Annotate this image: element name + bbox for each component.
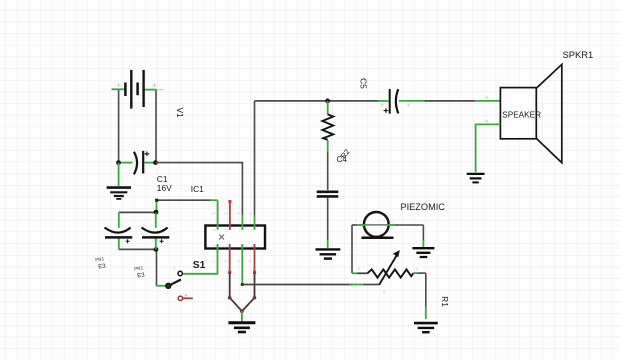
svg-text:3: 3 bbox=[240, 244, 242, 248]
wire pin2 red bottom bbox=[229, 244, 231, 272]
ground R1 bbox=[414, 323, 438, 332]
node junction C1 left bbox=[116, 160, 121, 165]
wire pin3 to wiper run bbox=[241, 283, 380, 286]
svg-text:14: 14 bbox=[211, 212, 215, 216]
wire pin4 diagonal to ground node bbox=[242, 296, 256, 311]
ground speaker bbox=[467, 174, 485, 183]
wire pin1 green drop bbox=[217, 200, 219, 230]
ground C4 bbox=[316, 249, 341, 258]
capacitor C3 bbox=[142, 212, 170, 249]
label C1 16V bbox=[157, 174, 172, 193]
wire piezo right bbox=[387, 225, 424, 247]
microphone PIEZOMIC bbox=[358, 212, 396, 238]
label SPKR1 bbox=[563, 49, 594, 60]
node red junction pin2 bbox=[228, 271, 231, 274]
svg-text:1: 1 bbox=[214, 244, 216, 248]
label C5 bbox=[358, 78, 368, 89]
battery V1 bbox=[112, 70, 164, 109]
wire top rail bbox=[255, 100, 379, 102]
label S1 bbox=[193, 260, 206, 271]
svg-text:2: 2 bbox=[391, 219, 393, 223]
wire C5 to speaker bbox=[425, 100, 476, 102]
wire pin4 green stub top bbox=[254, 215, 256, 230]
wire R2 to C4 bbox=[327, 153, 329, 191]
svg-text:14: 14 bbox=[212, 229, 216, 233]
node junction caps bottom bbox=[154, 247, 159, 252]
wire ground stub IC bbox=[241, 311, 243, 321]
node junction caps top bbox=[154, 210, 159, 215]
wire speaker top green bbox=[475, 100, 500, 102]
svg-text:V1: V1 bbox=[175, 107, 185, 118]
node V ground point bbox=[240, 309, 244, 313]
svg-text:R1: R1 bbox=[440, 296, 450, 307]
ground battery bbox=[107, 188, 131, 199]
resistor R2 drop bbox=[322, 101, 333, 153]
wire pin2 red top bbox=[228, 200, 231, 230]
wire top rail green into C5 bbox=[378, 100, 389, 102]
ground IC bbox=[228, 323, 255, 332]
wire jog to pin1 bbox=[155, 199, 217, 202]
capacitor C2 bbox=[105, 212, 133, 249]
wire C1 row to pin3 corner bbox=[156, 163, 243, 217]
svg-text:1: 1 bbox=[212, 259, 214, 263]
wire C5 right green bbox=[399, 100, 425, 102]
svg-text:C5: C5 bbox=[358, 78, 368, 89]
wire piezo left bbox=[352, 225, 365, 273]
node junction top rail bbox=[325, 99, 330, 104]
wire battery ground stub bbox=[118, 163, 120, 187]
capacitor C1 bbox=[120, 151, 154, 175]
wire battery right vertical bbox=[155, 90, 157, 163]
svg-text:2: 2 bbox=[225, 259, 227, 263]
wire battery left vertical bbox=[118, 89, 120, 162]
svg-text:16V: 16V bbox=[157, 183, 172, 193]
label R1 bbox=[440, 296, 450, 307]
potentiometer R1 bbox=[352, 250, 426, 295]
capacitor C4 bbox=[317, 192, 339, 197]
wire switch throw to pin1 bbox=[183, 273, 218, 275]
wire pin4 vertical from top rail bbox=[254, 101, 256, 217]
node junction C1 right bbox=[153, 160, 158, 165]
svg-text:1: 1 bbox=[355, 219, 357, 223]
label V1 bbox=[175, 107, 185, 118]
ground piezo bbox=[412, 248, 434, 257]
wire caps top rail bbox=[119, 211, 156, 213]
wire C4 to ground bbox=[327, 198, 329, 248]
svg-text:4: 4 bbox=[252, 244, 254, 248]
label PIEZOMIC bbox=[355, 202, 445, 223]
label IC1 bbox=[191, 184, 204, 194]
svg-text:13: 13 bbox=[224, 212, 228, 216]
svg-text:3: 3 bbox=[237, 259, 239, 263]
wire pin3 bottom green bbox=[241, 244, 243, 285]
wire caps bottom rail bbox=[119, 248, 156, 250]
svg-text:11: 11 bbox=[248, 212, 252, 216]
label C2 bbox=[95, 256, 107, 270]
node red junction pin4 bbox=[253, 271, 256, 274]
capacitor C5 bbox=[381, 89, 411, 114]
svg-text:12: 12 bbox=[236, 212, 240, 216]
speaker SPKR1 bbox=[485, 64, 562, 162]
IC IC1 body bbox=[205, 212, 265, 264]
svg-text:PIEZOMIC: PIEZOMIC bbox=[401, 202, 446, 212]
wire pin4 red bottom bbox=[254, 244, 256, 272]
wire pin2 dark drop bbox=[229, 272, 231, 297]
wire speaker bottom bbox=[476, 124, 501, 172]
svg-text:2: 2 bbox=[226, 244, 228, 248]
svg-text:4: 4 bbox=[249, 259, 251, 263]
wire pin4 dark drop bbox=[254, 272, 256, 297]
svg-text:SPEAKER: SPEAKER bbox=[502, 111, 541, 120]
svg-text:13: 13 bbox=[225, 229, 229, 233]
wire pin2 diagonal to ground node bbox=[228, 296, 242, 311]
wire pin1 bottom green bbox=[217, 244, 219, 275]
svg-text:S1: S1 bbox=[193, 260, 206, 271]
wire to switch pole bbox=[156, 285, 166, 287]
wire pin3 green stub top bbox=[241, 215, 243, 230]
switch S1 bbox=[166, 266, 183, 289]
wire vertical x156 down to switch row bbox=[156, 200, 158, 286]
label C4 R2 bbox=[337, 147, 352, 164]
svg-text:IC1: IC1 bbox=[191, 184, 204, 194]
svg-text:SPKR1: SPKR1 bbox=[563, 49, 594, 60]
label C3 bbox=[134, 265, 146, 279]
wire S1 unconnected throw bbox=[178, 293, 193, 300]
wire R1 right drop bbox=[425, 273, 427, 319]
